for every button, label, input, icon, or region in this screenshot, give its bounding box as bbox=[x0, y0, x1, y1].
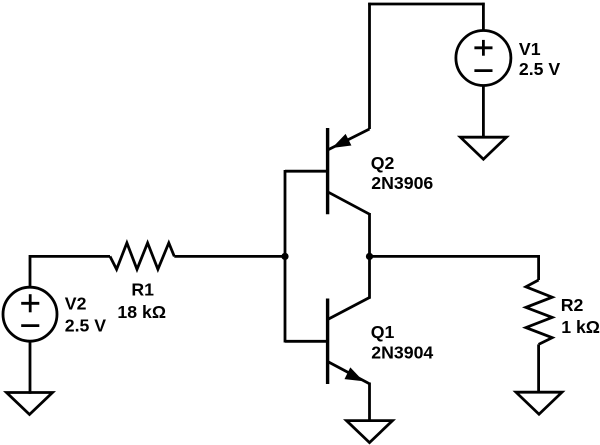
transistor Q1 collector bbox=[328, 298, 370, 320]
svg-text:V2: V2 bbox=[65, 294, 87, 314]
transistor Q1 bar bbox=[326, 299, 329, 385]
wire V1 bottom lead bbox=[482, 86, 485, 139]
wire base rail (Q2 base to Q1 base) bbox=[284, 170, 287, 343]
transistor Q2 bar bbox=[326, 128, 329, 214]
resistor R1 bbox=[110, 243, 174, 269]
wire Q2 collector to node B bbox=[368, 213, 371, 257]
wire R2 bottom lead bbox=[537, 344, 540, 393]
transistor Q1 emitter arrow bbox=[345, 367, 364, 381]
wire top rail bbox=[368, 3, 484, 6]
svg-text:R1: R1 bbox=[131, 280, 154, 300]
svg-text:Q1: Q1 bbox=[371, 322, 395, 342]
svg-text:2N3906: 2N3906 bbox=[371, 173, 433, 193]
svg-text:2.5 V: 2.5 V bbox=[519, 59, 561, 79]
svg-text:2.5 V: 2.5 V bbox=[65, 316, 107, 336]
svg-text:R2: R2 bbox=[561, 295, 584, 315]
transistor Q2 collector bbox=[328, 192, 370, 214]
ground under V1 bbox=[460, 137, 506, 159]
svg-text:V1: V1 bbox=[519, 39, 541, 59]
resistor R2 bbox=[526, 280, 552, 344]
transistor Q1 emitter bbox=[328, 362, 370, 384]
voltage source V1 bbox=[456, 31, 511, 86]
svg-text:Q2: Q2 bbox=[371, 153, 395, 173]
transistor Q2 emitter bbox=[328, 129, 370, 150]
wire R1 to node A bbox=[174, 255, 285, 258]
svg-text:1 kΩ: 1 kΩ bbox=[561, 317, 600, 337]
wire V2 bottom lead bbox=[29, 341, 32, 394]
svg-text:18 kΩ: 18 kΩ bbox=[117, 302, 166, 322]
transistor Q1 base lead bbox=[285, 340, 328, 343]
ground under R2 bbox=[516, 392, 562, 414]
wire Q1 emitter lead bbox=[368, 383, 371, 422]
wire Q1 collector to node B bbox=[368, 255, 371, 299]
ground under V2 bbox=[7, 393, 53, 415]
wire Q2 emitter to top rail bbox=[368, 3, 371, 129]
wire node B to R2 bbox=[370, 256, 539, 280]
voltage source V2 bbox=[3, 287, 57, 341]
transistor Q2 emitter arrow bbox=[332, 134, 351, 148]
ground under Q1 bbox=[347, 421, 393, 443]
node A bbox=[281, 253, 288, 260]
wire V1 top lead bbox=[482, 3, 485, 31]
node B bbox=[366, 253, 373, 260]
svg-text:2N3904: 2N3904 bbox=[371, 343, 433, 363]
wire V2 top lead to R1 bbox=[30, 256, 110, 287]
transistor Q2 base lead bbox=[285, 170, 328, 173]
